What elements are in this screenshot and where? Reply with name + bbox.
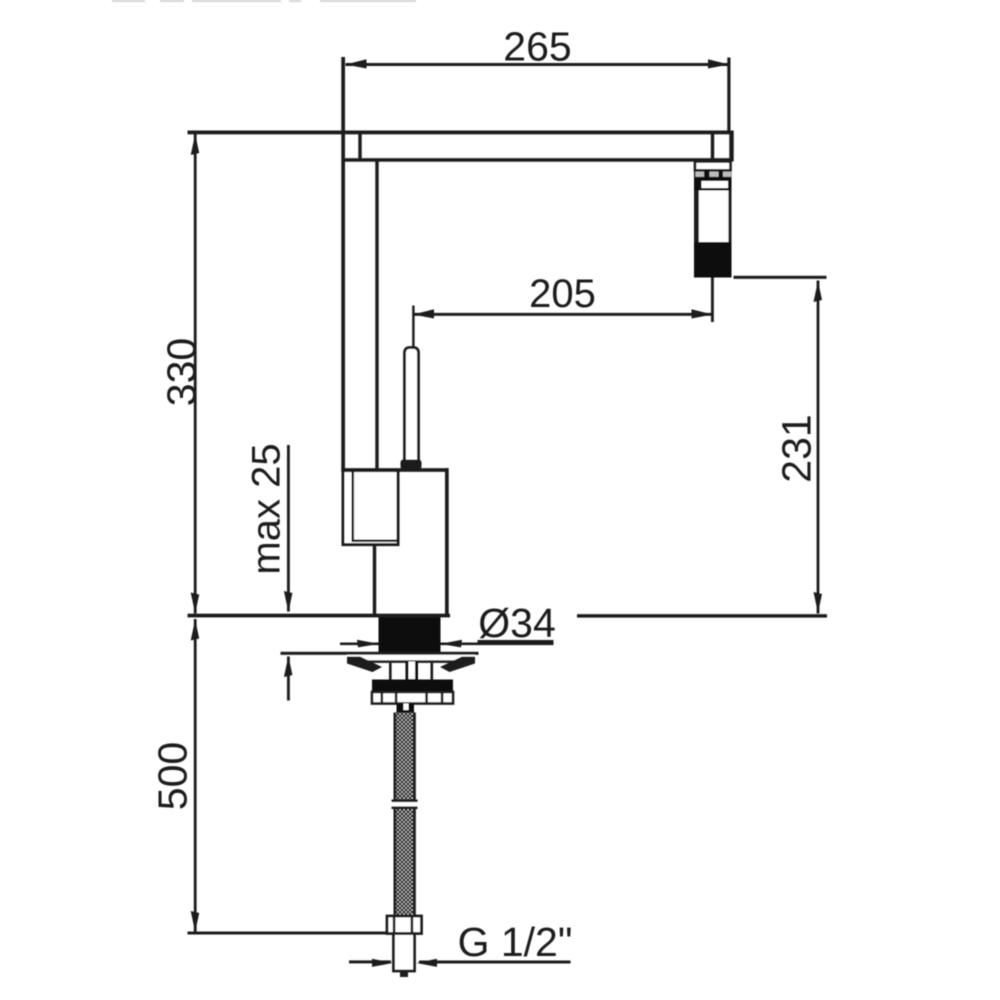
riser tube left edge (also 265 left extension above) — [341, 57, 345, 470]
deck line left segment + body bottom — [188, 614, 451, 618]
dim 330 — [158, 133, 204, 614]
spray head body — [694, 191, 732, 243]
spray head upper band — [694, 179, 732, 191]
dia 34 underline — [478, 640, 554, 643]
dim 231 top extension line — [734, 276, 827, 279]
svg-text:330: 330 — [158, 338, 204, 406]
pipe width dim right arrow — [417, 959, 438, 967]
locknut upper black band — [372, 680, 453, 693]
dia 34 leader right — [440, 640, 554, 648]
faint cropped text marks at top edge — [112, 0, 416, 2]
spout right end cap edge — [729, 131, 733, 162]
spout left elbow divider — [358, 133, 361, 161]
pipe width dim left stub with arrow — [349, 959, 393, 967]
spout top edge line (with left extension for dim 330) — [188, 131, 734, 135]
black base gasket — [379, 617, 441, 654]
dim 265 — [346, 24, 731, 132]
body right edge — [445, 468, 449, 616]
svg-text:265: 265 — [503, 24, 571, 70]
spray head collar — [695, 162, 731, 171]
locknut lower part — [372, 692, 453, 704]
500 bottom extension line — [188, 932, 388, 935]
deck line right segment — [577, 614, 827, 617]
hex fitting — [387, 916, 422, 934]
body left edge (below handle block) — [373, 545, 376, 617]
svg-text:500: 500 — [149, 742, 195, 810]
threaded shank — [389, 662, 433, 687]
flange top line (max25 lower reference) — [281, 652, 479, 655]
svg-text:205: 205 — [529, 272, 596, 316]
tail pipe — [394, 934, 415, 978]
lever ball joint — [401, 460, 422, 470]
spray head slotted ring — [694, 170, 732, 178]
spout bottom edge line — [342, 158, 733, 162]
flange plate — [347, 655, 475, 672]
body top line — [341, 468, 448, 472]
hose neck — [397, 704, 415, 714]
dim max 25 — [244, 443, 292, 700]
handle block — [343, 471, 398, 545]
dim 205 — [413, 272, 713, 319]
riser tube right edge — [375, 161, 378, 470]
spray head black tip — [694, 242, 732, 278]
dim 205 right extension (below head) — [711, 278, 714, 323]
braided hose — [394, 713, 416, 916]
svg-text:max 25: max 25 — [244, 443, 288, 574]
dim 500 — [149, 619, 199, 933]
hose coupling — [392, 800, 418, 810]
svg-text:G 1/2": G 1/2" — [458, 919, 573, 965]
dim 205 left extension line — [412, 306, 414, 347]
svg-text:Ø34: Ø34 — [478, 600, 556, 646]
lever rod — [405, 348, 419, 463]
dim 231 — [773, 281, 822, 614]
spout right end divider — [711, 133, 714, 161]
G 1/2 leader underline — [419, 961, 571, 964]
svg-text:231: 231 — [773, 414, 819, 482]
dia 34 leader left — [340, 640, 379, 648]
